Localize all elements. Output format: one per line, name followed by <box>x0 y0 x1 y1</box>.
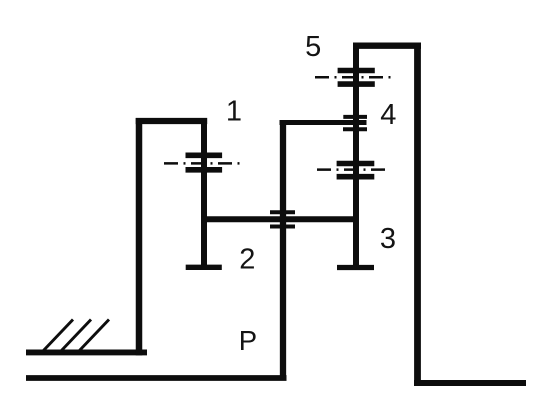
wire: right frame top horizontal <box>353 43 421 49</box>
gear 3 top bar <box>337 161 375 167</box>
svg-text:1: 1 <box>226 96 242 128</box>
svg-text:5: 5 <box>305 31 321 63</box>
shaft 3 bottom bar <box>337 265 374 270</box>
shaft of gears 3-4-5 <box>353 43 359 268</box>
wire: main horizontal link between shafts <box>201 216 359 222</box>
carrier joint bar below <box>270 225 295 229</box>
wire: right frame wall vertical <box>414 43 421 386</box>
wire: left frame wall vertical <box>136 118 143 355</box>
gear 1 axis centerline (dash-dot) <box>164 162 242 165</box>
svg-text:P: P <box>239 325 257 356</box>
svg-text:2: 2 <box>239 244 255 276</box>
gear 2 bottom bar <box>186 265 222 270</box>
wire: bottom line of carrier P <box>26 375 287 381</box>
wire: right frame bottom horizontal <box>414 380 526 386</box>
gear 5 axis centerline (dash-dot) <box>315 76 391 79</box>
carrier arm to gear 4 <box>280 120 367 125</box>
svg-text:4: 4 <box>380 99 396 131</box>
ground hatch stroke 2 <box>61 320 91 352</box>
wire: left frame top horizontal <box>136 118 208 124</box>
ground hatch stroke 1 <box>43 320 73 352</box>
gear 5 bottom bar <box>338 81 375 87</box>
gear 3 axis centerline (dash-dot) <box>317 168 387 171</box>
shaft of gears 1-2 <box>201 118 207 269</box>
gear 1 bottom bar <box>186 167 223 173</box>
ground (fixed frame base line) <box>26 349 147 355</box>
carrier shaft P vertical <box>280 120 286 381</box>
gear 3 bottom bar <box>337 174 375 180</box>
gear 5 top bar <box>338 68 375 74</box>
svg-text:3: 3 <box>380 223 396 255</box>
gear 4 top bar <box>343 115 367 119</box>
gear 4 bottom bar <box>343 127 367 131</box>
ground hatch stroke 3 <box>79 320 109 352</box>
gear 1 top bar <box>186 153 223 159</box>
carrier joint bar above <box>270 210 295 214</box>
